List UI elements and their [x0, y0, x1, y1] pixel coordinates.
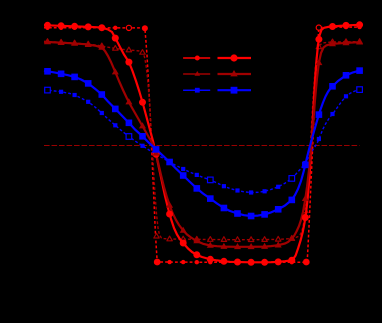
red solid curve — [44, 25, 360, 262]
legend row dark-red: thick line sample — [218, 73, 252, 75]
legend row dark-red: thin line sample — [183, 73, 210, 75]
legend row blue: thin line sample — [183, 89, 210, 91]
legend blue small filled square — [195, 88, 200, 93]
red solid filled circle markers — [44, 21, 363, 265]
blue dashed small square markers — [59, 90, 348, 195]
blue solid curve — [44, 71, 360, 216]
dashed horizontal midline at y=145 — [44, 145, 360, 147]
red dashed square-wave curve — [44, 27, 360, 262]
dark-red solid filled triangle markers — [44, 38, 363, 249]
legend row blue: thick line sample — [218, 89, 252, 91]
dark-red solid curve — [44, 42, 360, 247]
legend row red: thick line sample — [218, 57, 252, 59]
blue dashed curve — [44, 90, 360, 193]
red dashed small filled circle markers — [45, 25, 362, 265]
red dashed open circle markers — [126, 25, 321, 31]
legend red large filled circle — [230, 54, 237, 61]
red dashed bottom corner markers — [154, 259, 310, 266]
blue solid filled square markers — [44, 67, 363, 219]
legend dark-red large filled triangle — [230, 70, 237, 76]
legend blue large filled square — [231, 87, 238, 94]
legend row red: thin line sample — [183, 57, 210, 59]
dark-red dashed curve — [44, 42, 360, 240]
dark-red open triangle markers — [45, 39, 363, 242]
legend dark-red small filled triangle — [195, 71, 201, 76]
legend red small filled circle — [195, 56, 200, 61]
red dashed top corner marker — [142, 25, 148, 31]
blue dashed open square markers — [45, 87, 363, 183]
